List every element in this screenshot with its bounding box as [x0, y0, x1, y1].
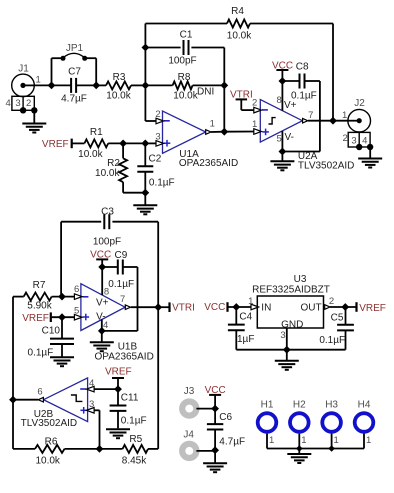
label OPA2365AID (U1A)	[179, 158, 238, 169]
svg-text:C9: C9	[115, 250, 128, 261]
junction (R2 top)	[119, 140, 127, 148]
junction (VREF/C11)	[114, 385, 122, 393]
junction (JP1 right)	[92, 82, 100, 90]
svg-text:0.1µF: 0.1µF	[121, 415, 147, 426]
label U1B	[118, 342, 138, 353]
pin 3 label (U3)	[280, 330, 285, 341]
svg-text:4: 4	[89, 378, 94, 389]
pin 7 label (U1B)	[120, 294, 125, 305]
wire C3 left	[61, 222, 101, 297]
svg-text:4: 4	[362, 136, 367, 147]
value 10.0k (R1)	[78, 149, 103, 160]
pin 4 label (U2B)	[89, 378, 94, 389]
label J1	[18, 64, 29, 75]
value 10.0k (R2)	[95, 168, 120, 179]
label OUT (U3)	[300, 303, 321, 314]
pin 1 label J2	[342, 110, 347, 121]
label R1	[90, 127, 103, 138]
svg-text:4: 4	[6, 98, 11, 109]
wire to R3	[96, 84, 106, 86]
pin 1 label (H1)	[269, 435, 274, 446]
label C3	[101, 206, 114, 217]
pin 3 arrow (U2B)	[87, 408, 100, 449]
connector J1	[6, 74, 38, 113]
svg-text:0.1µF: 0.1µF	[319, 335, 345, 346]
svg-text:0.1µF: 0.1µF	[291, 91, 317, 102]
pin 8 wire (U2A V+)	[281, 81, 283, 111]
svg-text:1: 1	[366, 435, 371, 446]
ground (U3)	[275, 350, 299, 370]
junction (R4/out)	[329, 117, 337, 125]
pin 1 label J1	[36, 74, 41, 85]
label REF3325AIDBZT (U3)	[252, 284, 330, 295]
label H2	[293, 400, 306, 411]
label V+ (U1B)	[96, 297, 109, 308]
jumper JP1	[52, 53, 97, 85]
label C2	[149, 153, 162, 164]
label H4	[358, 400, 371, 411]
pin 5 arrow (U1B)	[74, 314, 82, 320]
svg-text:V+: V+	[96, 297, 109, 308]
svg-text:10.0k: 10.0k	[173, 91, 198, 102]
wire VREF to R1	[72, 142, 85, 144]
pin 2 label (U2A)	[252, 97, 257, 108]
wire top feedback right	[250, 24, 333, 121]
VCC flag (C6)	[205, 385, 226, 408]
junction (R6/R5/pin3)	[96, 445, 104, 453]
ground (C11)	[106, 429, 130, 438]
svg-text:TLV3502AID: TLV3502AID	[298, 160, 355, 171]
label JP1	[66, 43, 84, 54]
svg-text:7: 7	[308, 110, 313, 121]
svg-text:1: 1	[248, 296, 253, 307]
wire U2A out to J2	[308, 120, 348, 122]
pin 2 arrow (U1A)	[156, 118, 164, 124]
wire rail to R7	[13, 296, 24, 298]
svg-text:6: 6	[37, 386, 42, 397]
op-amp U1B	[81, 284, 125, 331]
capacitor C10	[50, 317, 74, 357]
net label VREF (U1B)	[22, 312, 51, 323]
svg-text:C11: C11	[121, 392, 139, 403]
junction (pin6/C3)	[58, 293, 66, 301]
node A junction	[142, 82, 150, 90]
wire C3 right	[112, 222, 158, 308]
label U1A	[179, 149, 199, 160]
wire C1 left	[145, 47, 180, 49]
wire U1A out to U2A	[224, 131, 254, 133]
svg-text:6: 6	[74, 284, 79, 295]
wire VCC to U3	[228, 306, 252, 308]
pin wire (H2)	[298, 434, 300, 449]
svg-text:1: 1	[269, 435, 274, 446]
svg-text:R3: R3	[113, 72, 126, 83]
svg-text:4.7µF: 4.7µF	[61, 94, 87, 105]
pin 1 arrow (U2A)	[254, 129, 262, 135]
wire U1B out to VTRI	[131, 306, 158, 308]
svg-text:5: 5	[74, 305, 79, 316]
hole J4	[182, 444, 196, 458]
capacitor C1	[184, 40, 189, 55]
value 0.1uF (C5)	[319, 335, 345, 346]
pin 7 arrow (U2A out)	[303, 118, 308, 123]
svg-text:JP1: JP1	[66, 43, 84, 54]
label V- (U2A)	[285, 132, 294, 143]
svg-text:2: 2	[155, 109, 160, 120]
svg-text:3: 3	[351, 136, 356, 147]
svg-text:7: 7	[120, 294, 125, 305]
comparator U2A	[260, 100, 302, 143]
svg-text:R8: R8	[178, 72, 191, 83]
label R4	[231, 6, 244, 17]
capacitor C3	[104, 214, 109, 229]
junction (U2A pin5)	[279, 148, 287, 156]
pin 2 label (U1A)	[155, 109, 160, 120]
svg-text:R5: R5	[129, 434, 142, 445]
wire top feedback left	[145, 23, 227, 25]
svg-text:3: 3	[280, 330, 285, 341]
wire J1 to node	[34, 84, 51, 86]
svg-text:8.45k: 8.45k	[122, 456, 147, 467]
svg-text:C1: C1	[180, 30, 193, 41]
capacitor C7	[52, 78, 97, 93]
svg-text:C3: C3	[101, 206, 114, 217]
comparator U2B	[44, 378, 88, 422]
pin 4 wire (U1B V-)	[102, 319, 138, 331]
junction (U2B out)	[9, 396, 17, 404]
svg-text:H2: H2	[293, 400, 306, 411]
pin 7 arrow (U1B out)	[125, 305, 130, 310]
junction (pin5/C10)	[58, 313, 66, 321]
svg-text:C5: C5	[331, 312, 344, 323]
capacitor C2	[137, 143, 153, 192]
value 5.90k (R7)	[27, 301, 52, 312]
junction (H3)	[328, 445, 335, 452]
label J3	[184, 386, 195, 397]
label C4	[239, 311, 252, 322]
junction (J3/VCC/C6)	[211, 405, 219, 413]
value 100pF (C1)	[168, 56, 196, 67]
svg-text:H4: H4	[358, 400, 371, 411]
VCC flag (U2A)	[272, 60, 293, 81]
value 4.7uF (C6)	[219, 437, 245, 448]
label IN (U3)	[261, 303, 271, 314]
svg-text:R1: R1	[90, 127, 103, 138]
wire R3 to node A	[131, 84, 145, 86]
value 8.45k (R5)	[122, 456, 147, 467]
pin wire (H4)	[363, 434, 365, 449]
svg-text:C10: C10	[42, 325, 61, 336]
svg-text:REF3325AIDBZT: REF3325AIDBZT	[252, 284, 330, 295]
svg-text:J4: J4	[183, 430, 194, 441]
label R2	[107, 158, 120, 169]
svg-text:H1: H1	[261, 400, 274, 411]
pin 8 label (U2A)	[277, 95, 282, 106]
svg-text:C2: C2	[149, 153, 162, 164]
svg-text:C6: C6	[219, 412, 232, 423]
svg-text:H3: H3	[325, 400, 338, 411]
label TLV3502AID (U2B)	[21, 418, 78, 429]
junction (C4 top)	[232, 303, 240, 311]
svg-text:2: 2	[343, 133, 348, 144]
value 4.7uF (C7)	[61, 94, 87, 105]
svg-text:100pF: 100pF	[93, 237, 121, 248]
label C11	[121, 392, 139, 403]
svg-text:VREF: VREF	[359, 303, 386, 314]
net label VTRI (U1B)	[158, 302, 195, 313]
label V+ (U2A)	[284, 100, 297, 111]
net label VCC (U3)	[204, 302, 227, 313]
ground (J2)	[358, 147, 382, 168]
svg-text:3: 3	[155, 131, 160, 142]
svg-text:R4: R4	[231, 6, 244, 17]
svg-text:1: 1	[301, 435, 306, 446]
resistor R7	[24, 293, 52, 301]
capacitor C5	[287, 307, 354, 350]
pin 2 label (U3)	[329, 296, 334, 307]
pin 4 label (U1B)	[103, 320, 108, 331]
label GND (U3)	[281, 319, 303, 330]
svg-text:2: 2	[329, 296, 334, 307]
label C8	[296, 62, 309, 73]
net label VREF (R1)	[42, 139, 72, 151]
pin 1 label (U2A)	[252, 119, 257, 130]
svg-text:GND: GND	[281, 319, 303, 330]
svg-text:1µF: 1µF	[237, 334, 254, 345]
wire left rail	[13, 297, 35, 449]
svg-text:10.0k: 10.0k	[78, 149, 103, 160]
VCC flag (U1B)	[90, 250, 111, 267]
svg-text:10.0k: 10.0k	[106, 91, 131, 102]
svg-text:1: 1	[334, 435, 339, 446]
pin wire (H3)	[331, 434, 333, 449]
svg-text:OPA2365AID: OPA2365AID	[95, 352, 154, 363]
svg-text:J3: J3	[184, 386, 195, 397]
svg-text:DNI: DNI	[197, 87, 214, 98]
wire VREF to pin5	[51, 316, 75, 318]
ground (C2)	[133, 193, 157, 215]
ground (U2A)	[270, 152, 294, 171]
label R7	[33, 280, 46, 291]
wire node A vertical	[144, 24, 146, 122]
wire C1 right	[191, 48, 224, 132]
pin 3 label (U1A)	[155, 131, 160, 142]
svg-text:VTRI: VTRI	[172, 303, 195, 314]
pin 5 wire (U2A V-)	[282, 131, 320, 152]
svg-text:5: 5	[277, 134, 282, 145]
label U2A	[298, 151, 318, 162]
pin 1 label (U3)	[248, 296, 253, 307]
wire J4 to node	[196, 450, 215, 452]
hole J3	[182, 402, 196, 416]
label C1	[180, 30, 193, 41]
svg-text:OUT: OUT	[300, 303, 321, 314]
svg-text:0.1µF: 0.1µF	[149, 177, 175, 188]
wire R6 to junction	[65, 448, 123, 450]
label U3	[294, 274, 307, 285]
value 10.0k (R3)	[106, 91, 131, 102]
pin 2 arrow (U2A)	[254, 107, 262, 113]
svg-text:VCC: VCC	[204, 302, 225, 313]
op-amp U1A	[163, 111, 206, 153]
wire H row	[267, 448, 364, 450]
pin 6 arrow (U2B out)	[13, 397, 43, 402]
resistor R5	[123, 445, 149, 453]
ground (C10)	[50, 357, 74, 366]
svg-text:3: 3	[89, 399, 94, 410]
svg-text:U3: U3	[294, 274, 307, 285]
wire R7 to pin6	[52, 296, 75, 298]
junction (C1 left)	[142, 44, 150, 52]
svg-text:TLV3502AID: TLV3502AID	[21, 418, 78, 429]
label J4	[183, 430, 194, 441]
label R3	[113, 72, 126, 83]
capacitor C11	[110, 389, 127, 428]
svg-text:1: 1	[210, 119, 215, 130]
wire to U1A pin2	[145, 120, 156, 122]
label U2B	[34, 409, 54, 420]
mounting hole H1	[258, 413, 277, 432]
ground (J1)	[22, 110, 46, 132]
pin 6 label (U1B)	[74, 284, 79, 295]
label C5	[331, 312, 344, 323]
junction (U1B pin4)	[98, 327, 106, 335]
mounting hole H4	[355, 413, 374, 432]
svg-text:1: 1	[342, 110, 347, 121]
label C9	[115, 250, 128, 261]
pin 1 arrow (U1A out)	[206, 130, 225, 135]
capacitor C4	[228, 307, 287, 350]
pin 1 label (H3)	[334, 435, 339, 446]
junction (J4/C6)	[211, 446, 219, 454]
pin 7 label (U2A)	[308, 110, 313, 121]
label H3	[325, 400, 338, 411]
resistor R3	[106, 81, 131, 89]
ground (U1B)	[90, 331, 114, 351]
label TLV3502AID (U2A)	[298, 160, 355, 171]
svg-text:C7: C7	[68, 67, 81, 78]
value 0.1uF (C10)	[28, 348, 54, 359]
junction (C2/R2 bottom)	[141, 189, 149, 197]
capacitor C9	[102, 260, 137, 332]
value 100pF (C3)	[93, 237, 121, 248]
label J2	[354, 98, 365, 109]
label C6	[219, 412, 232, 423]
mounting hole H2	[290, 413, 309, 432]
label C7	[68, 67, 81, 78]
pin 3 arrow (U1A)	[156, 141, 164, 147]
svg-text:C8: C8	[296, 62, 309, 73]
pin 5 label (U1B)	[74, 305, 79, 316]
pin 2 arrow (U3)	[325, 305, 357, 310]
svg-text:J2: J2	[354, 98, 365, 109]
wire R1 to junction	[108, 142, 145, 144]
svg-text:V-: V-	[285, 132, 294, 143]
pin 1 label (H2)	[301, 435, 306, 446]
wire J3 to node	[196, 408, 215, 410]
pin 8 wire (U1B V+)	[101, 267, 103, 295]
pin 6 arrow (U1B)	[74, 294, 82, 300]
capacitor C8	[282, 74, 320, 152]
ground (H row)	[287, 449, 311, 464]
svg-text:1: 1	[252, 119, 257, 130]
svg-text:J1: J1	[18, 64, 29, 75]
value 0.1uF (C2)	[149, 177, 175, 188]
svg-text:2: 2	[252, 97, 257, 108]
label V- (U1B)	[96, 312, 105, 323]
label R5	[129, 434, 142, 445]
svg-text:10.0k: 10.0k	[95, 168, 120, 179]
svg-text:C4: C4	[239, 311, 252, 322]
resistor R8	[173, 81, 193, 89]
value 0.1uF (C11)	[121, 415, 147, 426]
value 1uF (C4)	[237, 334, 254, 345]
junction (C5 top)	[341, 303, 349, 311]
junction (VCC/C9)	[98, 263, 106, 271]
svg-text:0.1µF: 0.1µF	[28, 348, 54, 359]
net label VREF (U3)	[357, 302, 386, 314]
svg-text:2: 2	[26, 98, 31, 109]
resistor R4	[227, 20, 250, 28]
pin 1 label (U1A)	[210, 119, 215, 130]
ground (C6)	[203, 450, 227, 472]
pin 6 label (U2B)	[37, 386, 42, 397]
pin 3 label (U2B)	[89, 399, 94, 410]
svg-text:3: 3	[15, 98, 20, 109]
pin 4 arrow (U2B)	[87, 386, 118, 392]
junction (JP1 left)	[48, 82, 56, 90]
svg-text:8: 8	[277, 95, 282, 106]
svg-text:4.7µF: 4.7µF	[219, 437, 245, 448]
svg-text:10.0k: 10.0k	[227, 31, 252, 42]
mounting hole H3	[322, 413, 341, 432]
resistor R6	[35, 445, 65, 453]
pin 8 label (U1B)	[104, 286, 109, 297]
pin wire (H1)	[266, 434, 268, 449]
svg-text:VREF: VREF	[105, 367, 132, 378]
value 10.0k (R6)	[35, 456, 60, 467]
svg-text:1: 1	[36, 74, 41, 85]
wire to U1A pin3	[145, 142, 156, 144]
pin 5 label (U2A)	[277, 134, 282, 145]
junction (H2)	[296, 445, 303, 452]
svg-text:VREF: VREF	[22, 313, 49, 324]
svg-text:IN: IN	[261, 303, 271, 314]
label C10	[42, 325, 61, 336]
wire R5 to VTRI rail	[148, 307, 158, 449]
junction (R8/C1 vertical)	[220, 82, 228, 90]
junction (U3 gnd)	[283, 346, 291, 354]
resistor R1	[84, 139, 108, 147]
wire node A to R8	[145, 84, 172, 86]
net label VTRI (U2A)	[230, 89, 254, 110]
net label VREF (C11)	[105, 367, 132, 389]
connector J2	[343, 109, 374, 150]
label R6	[45, 436, 58, 447]
svg-text:R6: R6	[45, 436, 58, 447]
label H1	[261, 400, 274, 411]
resistor R2	[119, 143, 145, 192]
junction (VTRI)	[154, 303, 162, 311]
junction (U1A output)	[220, 128, 228, 136]
capacitor C6	[207, 409, 223, 451]
junction (C2 top)	[141, 140, 149, 148]
value 10.0k (R8)	[173, 91, 198, 102]
pin 1 arrow (U3)	[251, 304, 259, 310]
svg-text:VREF: VREF	[42, 139, 69, 150]
value 0.1uF (C8)	[291, 91, 317, 102]
IC U3 box	[257, 296, 323, 328]
